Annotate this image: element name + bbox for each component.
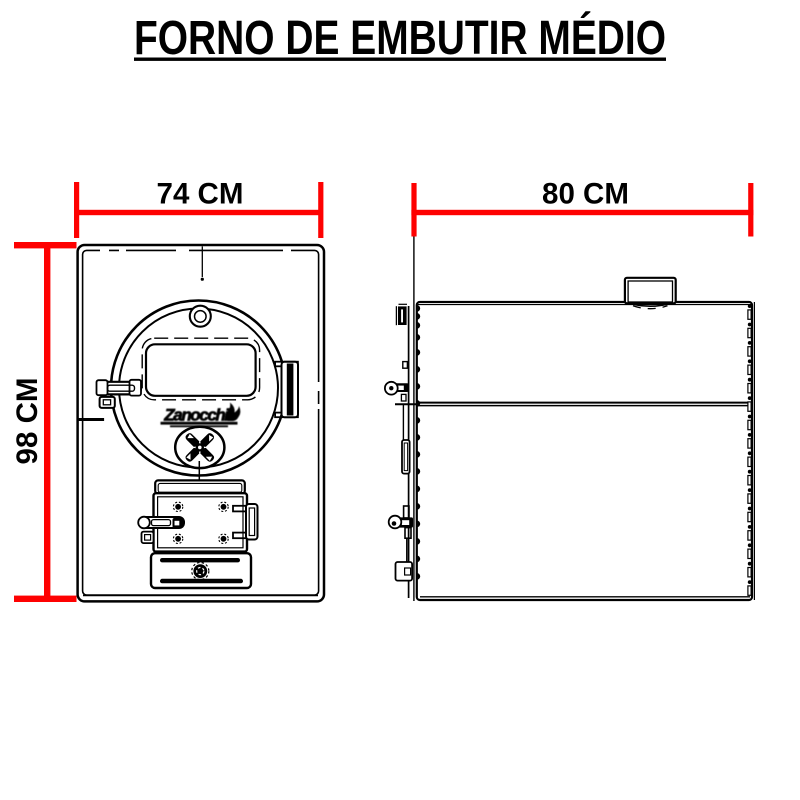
side body [417,302,752,600]
door handle right [275,362,298,418]
rivet row left [417,305,420,580]
drawer [151,553,251,588]
firebox bolts [173,502,228,543]
door inner ring [119,309,278,468]
svg-text:FORNO DE EMBUTIR MÉDIO: FORNO DE EMBUTIR MÉDIO [134,11,666,65]
hinge bracket top [396,304,407,325]
firebox lip [155,480,245,493]
drawer knob [192,563,209,580]
chimney [625,278,676,309]
side body right inner line [753,302,755,600]
svg-text:Zanocchi: Zanocchi [163,406,230,425]
svg-text:74 CM: 74 CM [157,178,244,211]
svg-text:80 CM: 80 CM [542,178,629,211]
door outer ring [111,301,286,476]
left flange line [408,306,410,598]
dimension 98 CM vertical [11,242,77,602]
firebox right bracket [233,504,258,540]
logo mark [161,403,241,428]
front inner bottom line [83,594,318,596]
extension line left [413,237,415,602]
left edge short line [78,418,105,421]
dimension 74 CM horizontal [74,178,323,239]
lower bracket [402,440,410,474]
mid split line [395,403,752,406]
dimension 80 CM horizontal [411,178,753,237]
firebox latch small square [142,532,154,544]
bottom bracket [396,562,413,581]
middle pin with circle [385,382,409,401]
small step [403,362,408,369]
firebox latch left [138,517,184,529]
door window [142,338,259,400]
drawer top groove [160,558,240,562]
side body top inner line [418,304,751,306]
svg-text:98 CM: 98 CM [11,378,44,465]
side body bottom inner line [420,596,750,598]
drawer bottom groove [160,579,243,584]
fan bottom tick [198,461,200,481]
inner panel gaps (top dashes) [100,249,321,409]
vent fan [175,427,224,468]
crease center line [201,246,203,277]
door latch left [97,380,142,396]
hinge circle top [190,306,211,327]
title FORNO DE EMBUTIR MEDIO [134,11,666,65]
front body outer [78,245,324,601]
lower knob with circle [389,506,413,538]
rivet row right [748,304,752,595]
front body inner panel [83,250,319,595]
latch small square [100,397,115,408]
firebox body [154,493,248,551]
